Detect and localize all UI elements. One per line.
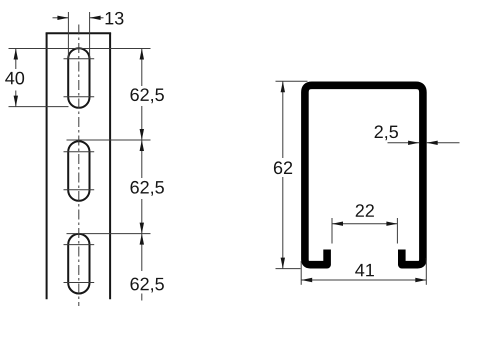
dim 62,5 #2: top arrowhead xyxy=(140,140,144,151)
dim 62: dimension line upper segment xyxy=(282,81,284,158)
dim 62: bottom extension line xyxy=(276,268,301,270)
dim 62: value label xyxy=(274,161,292,174)
dim 13: right extension line xyxy=(89,12,91,59)
dim 13: right arrow line xyxy=(90,17,104,19)
dim 62,5 #3: dimension line upper segment xyxy=(141,234,143,271)
dim 62,5 #3: value label xyxy=(131,278,164,293)
dim 41: right arrowhead xyxy=(415,278,426,282)
dim 40: dimension line lower segment xyxy=(15,91,17,107)
dim 62,5 #1: dimension line lower segment xyxy=(141,106,143,140)
extension line at slot3 top (dim 62,5) xyxy=(67,233,151,235)
vertical dash-dot centerline xyxy=(78,25,80,307)
dim 22: right arrowhead xyxy=(386,222,397,226)
channel strip front view: top edge xyxy=(46,32,112,34)
dim 62,5 #2: dimension line lower segment xyxy=(141,199,143,234)
C-profile cross-section outline xyxy=(305,85,423,264)
dim 41: left extension line xyxy=(300,261,302,285)
dim 62,5 #2: bottom arrowhead xyxy=(140,223,144,234)
dim 13: right arrowhead xyxy=(90,16,101,20)
dim 62: top arrowhead xyxy=(281,81,285,92)
dim 41: left arrowhead xyxy=(301,278,312,282)
slot 3 (obround) xyxy=(68,234,89,294)
dim 62,5 #3: dimension line lower segment xyxy=(141,294,143,301)
dim 2,5: right arrowhead xyxy=(427,141,438,145)
dim 13: value label xyxy=(106,12,124,25)
dim 41: dimension line xyxy=(301,279,426,281)
dim 40: value label xyxy=(5,72,24,85)
dim 62: bottom arrowhead xyxy=(281,258,285,269)
dim 62,5 #2: value label xyxy=(131,181,164,196)
dim 13: left arrowhead xyxy=(57,16,68,20)
dim 22: right extension line xyxy=(396,218,398,244)
slot 2 bottom arc center mark xyxy=(64,189,95,191)
shared extension line at slot1 top (dims 40 and 62,5) xyxy=(9,48,151,50)
dim 22: left arrowhead xyxy=(332,222,343,226)
extension line at slot1 bottom (dim 40) xyxy=(9,106,69,108)
dim 22: value label xyxy=(356,204,374,217)
dim 40: top arrowhead xyxy=(14,49,18,60)
dim 2,5: left arrow line xyxy=(388,142,420,144)
dim 62: top extension line xyxy=(276,80,308,82)
dim 22: left extension line xyxy=(331,218,333,244)
slot 3 bottom arc center mark xyxy=(64,282,95,284)
dim 2,5: right arrow line xyxy=(427,142,460,144)
dim 62,5 #2: dimension line upper segment xyxy=(141,140,143,178)
channel strip front view: right edge xyxy=(109,33,111,299)
dim 62: dimension line lower segment xyxy=(282,177,284,269)
dim 22: dimension line xyxy=(332,223,397,225)
dim 40: bottom arrowhead xyxy=(14,96,18,107)
dim 62,5 #1: dimension line upper segment xyxy=(141,49,143,87)
slot 1 bottom arc center mark xyxy=(64,96,95,98)
extension line at slot2 top (dim 62,5) xyxy=(67,139,151,141)
dim 2,5: value label xyxy=(375,125,398,140)
dim 13: left arrow line xyxy=(53,17,69,19)
dim 40: dimension line upper segment xyxy=(15,49,17,70)
dim 62,5 #1: value label xyxy=(131,88,164,103)
dim 62,5 #1: bottom arrowhead xyxy=(140,129,144,140)
slot 2 top arc center mark xyxy=(64,151,95,153)
dim 13: left extension line xyxy=(67,12,69,59)
slot 3 top arc center mark xyxy=(64,244,95,246)
dim 41: right extension line xyxy=(425,258,427,285)
dim 62,5 #3: top arrowhead xyxy=(140,234,144,245)
dim 2,5: left arrowhead xyxy=(408,141,419,145)
slot 1 (obround) xyxy=(68,48,89,108)
slot 1 top arc center mark xyxy=(64,58,95,60)
channel strip front view: left edge xyxy=(46,33,48,299)
dim 62,5 #1: top arrowhead xyxy=(140,49,144,60)
dim 41: value label xyxy=(355,264,374,276)
slot 2 (obround) xyxy=(68,141,89,201)
